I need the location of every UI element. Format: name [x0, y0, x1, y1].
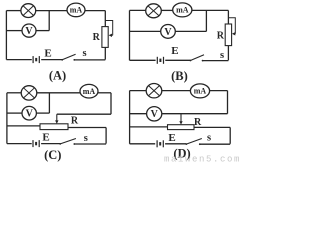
- svg-text:s: s: [84, 133, 88, 144]
- svg-text:R: R: [93, 32, 101, 43]
- svg-text:V: V: [25, 26, 33, 37]
- svg-text:V: V: [151, 109, 159, 120]
- svg-text:E: E: [171, 45, 178, 57]
- svg-text:maiwen5.com: maiwen5.com: [164, 154, 240, 162]
- svg-text:R: R: [194, 117, 202, 128]
- svg-text:s: s: [207, 132, 211, 143]
- svg-text:mA: mA: [176, 6, 189, 15]
- svg-text:E: E: [42, 131, 49, 143]
- svg-text:R: R: [71, 115, 79, 126]
- svg-text:mA: mA: [70, 6, 83, 15]
- svg-text:R: R: [217, 31, 225, 42]
- svg-text:mA: mA: [83, 87, 96, 96]
- svg-text:s: s: [83, 48, 87, 59]
- svg-text:(B): (B): [171, 69, 188, 83]
- svg-text:s: s: [220, 50, 224, 61]
- svg-text:mA: mA: [194, 87, 207, 96]
- svg-text:E: E: [168, 132, 175, 144]
- svg-text:(A): (A): [49, 68, 66, 82]
- svg-text:V: V: [164, 27, 172, 38]
- svg-text:V: V: [26, 109, 34, 120]
- svg-text:E: E: [44, 48, 51, 60]
- svg-text:(C): (C): [44, 148, 61, 162]
